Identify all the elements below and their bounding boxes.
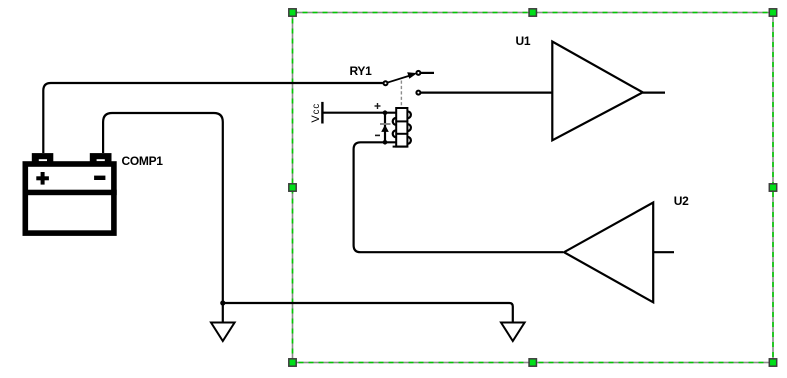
svg-text:RY1: RY1 bbox=[350, 64, 373, 78]
svg-text:COMP1: COMP1 bbox=[122, 154, 164, 168]
svg-text:U1: U1 bbox=[516, 34, 531, 48]
svg-text:U2: U2 bbox=[674, 194, 689, 208]
svg-text:Vcc: Vcc bbox=[310, 103, 322, 123]
